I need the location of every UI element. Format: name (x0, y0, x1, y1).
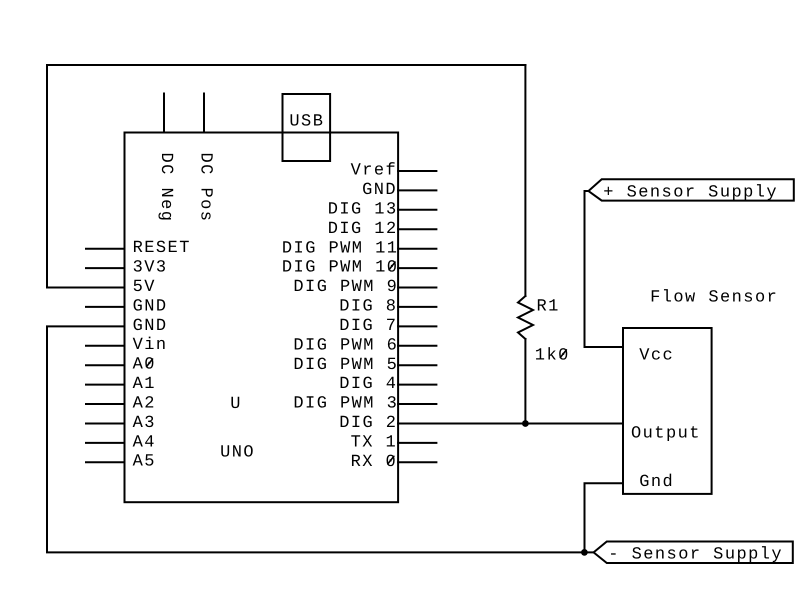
wire R1 bottom lead down to DIG 2 net (524, 339, 526, 424)
wire R1 top lead from top rail (524, 65, 526, 296)
wire pin Vref (398, 170, 436, 172)
flow sensor box outline (623, 328, 712, 494)
svg-text:DIG PWM 10: DIG PWM 10 (282, 259, 399, 278)
wire pin DIG 7 (398, 325, 436, 327)
slash on zero of DIG PWM 10 (389, 262, 395, 270)
wire pin A4 (86, 442, 125, 444)
svg-text:USB: USB (289, 112, 324, 131)
resistor R1 zigzag body (518, 296, 533, 339)
slash on zero of 1k0 (560, 350, 566, 358)
svg-text:Gnd: Gnd (639, 473, 674, 492)
svg-text:RESET: RESET (133, 239, 191, 258)
wire DIG 2 net: UNO DIG 2 pin to Flow Sensor Output (398, 423, 623, 425)
wire pin DIG 13 (398, 209, 436, 211)
svg-text:DIG 7: DIG 7 (339, 317, 397, 336)
wire pin A3 (86, 423, 125, 425)
svg-text:3V3: 3V3 (133, 259, 168, 278)
svg-text:5V: 5V (133, 278, 156, 297)
wire pin GND (upper) (86, 306, 125, 308)
svg-text:DIG 8: DIG 8 (339, 298, 397, 317)
wire pin DIG PWM 3 (398, 403, 436, 405)
wire pin DIG PWM 11 (398, 248, 436, 250)
svg-text:1k0: 1k0 (535, 347, 570, 366)
svg-text:DIG PWM 3: DIG PWM 3 (293, 395, 398, 414)
svg-text:RX 0: RX 0 (351, 453, 398, 472)
wire pin A5 (86, 461, 125, 463)
slash on zero of A0 (147, 359, 153, 367)
wire pin TX 1 (398, 442, 436, 444)
flag + Sensor Supply outline (589, 179, 794, 200)
svg-text:Flow Sensor: Flow Sensor (650, 289, 778, 308)
wire pin DIG PWM 10 (398, 267, 436, 269)
wire pin DIG PWM 9 (398, 287, 436, 289)
wire Gnd: Flow Sensor Gnd pin down to bottom rail (585, 483, 624, 552)
svg-text:DIG 12: DIG 12 (328, 220, 398, 239)
svg-text:GND: GND (133, 297, 168, 316)
svg-text:DIG 2: DIG 2 (339, 414, 397, 433)
wire pin DIG 8 (398, 306, 436, 308)
svg-text:DIG 4: DIG 4 (339, 375, 397, 394)
slash on zero of RX 0 (388, 456, 394, 464)
wire 5V supply loop: from R1 top across the top and down the left to the 5V pin (47, 65, 525, 288)
flag - Sensor Supply outline (594, 542, 793, 564)
wire + sensor supply: flag tip down to Vcc pin (585, 191, 624, 347)
svg-text:A3: A3 (133, 414, 156, 433)
wire pin RESET (86, 248, 125, 250)
svg-text:A5: A5 (133, 453, 156, 472)
svg-text:TX 1: TX 1 (351, 434, 398, 453)
svg-text:Output: Output (631, 424, 701, 443)
svg-text:DIG 13: DIG 13 (328, 200, 398, 219)
svg-text:A1: A1 (133, 375, 156, 394)
svg-text:DIG PWM 11: DIG PWM 11 (282, 239, 399, 258)
wire pin DIG PWM 6 (398, 345, 436, 347)
wire pin A2 (86, 403, 125, 405)
wire pin DIG 4 (398, 384, 436, 386)
svg-text:Vcc: Vcc (639, 347, 674, 366)
svg-text:DC Neg: DC Neg (156, 153, 175, 223)
USB connector box (283, 94, 331, 161)
wire pin 3V3 (86, 267, 125, 269)
svg-text:GND: GND (133, 317, 168, 336)
wire pin RX 0 (398, 461, 436, 463)
svg-text:UNO: UNO (220, 444, 255, 463)
wire DC Neg stub (163, 94, 165, 133)
wire GND return: from UNO GND pin left, down the left side to the bottom rail (47, 326, 594, 552)
slashed zero marks (CAD font style) (147, 262, 567, 464)
svg-text:DIG PWM 9: DIG PWM 9 (293, 278, 398, 297)
svg-text:Vin: Vin (133, 336, 168, 355)
svg-text:R1: R1 (537, 297, 560, 316)
wire pin DIG 12 (398, 228, 436, 230)
wire pin A1 (86, 384, 125, 386)
wire pin DIG PWM 5 (398, 364, 436, 366)
svg-text:Vref: Vref (351, 162, 398, 181)
svg-text:GND: GND (362, 181, 397, 200)
wire pin GND (right) (398, 189, 436, 191)
wire DC Pos stub (203, 94, 205, 133)
svg-text:- Sensor Supply: - Sensor Supply (608, 545, 783, 564)
svg-text:DIG PWM 6: DIG PWM 6 (293, 336, 398, 355)
svg-text:DC Pos: DC Pos (196, 153, 215, 223)
wire pin Vin (86, 345, 125, 347)
svg-text:U: U (230, 395, 242, 414)
op UNO box outline (125, 133, 399, 503)
svg-text:A2: A2 (133, 394, 156, 413)
node junction dot R1/DIG2 (522, 420, 529, 427)
svg-text:DIG PWM 5: DIG PWM 5 (293, 356, 398, 375)
svg-text:+ Sensor Supply: + Sensor Supply (603, 184, 778, 203)
wire pin A0 (86, 364, 125, 366)
svg-text:A4: A4 (133, 433, 156, 452)
node junction dot bottom rail (581, 549, 588, 556)
